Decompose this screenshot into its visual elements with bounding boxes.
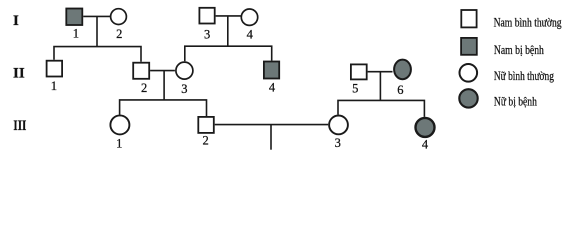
wire marriage II-5 to II-6 [368, 71, 393, 73]
legend symbol affected female [459, 89, 477, 107]
svg-text:Nam bình thường: Nam bình thường [494, 15, 562, 30]
wire marriage I-3 to I-4 [216, 15, 241, 17]
svg-text:3: 3 [204, 27, 210, 41]
individual I-2 normal female [111, 9, 127, 25]
individual III-3 normal female [329, 116, 348, 135]
svg-text:2: 2 [141, 81, 147, 95]
svg-text:4: 4 [269, 80, 276, 94]
wire sibling line of III-3 and III-4 [338, 100, 424, 117]
individual II-3 normal female [176, 62, 193, 79]
svg-text:2: 2 [202, 134, 208, 148]
svg-text:2: 2 [116, 27, 122, 41]
individual II-1 normal male [47, 61, 63, 77]
individual III-2 normal male [198, 117, 214, 133]
wire drop from couple II-5/II-6 [379, 72, 381, 101]
svg-text:III: III [13, 118, 26, 134]
svg-text:6: 6 [397, 83, 403, 97]
individual II-2 normal male [133, 63, 149, 79]
svg-text:I: I [13, 13, 19, 29]
individual III-4 affected female [416, 118, 435, 137]
wire drop from couple I-1/I-2 [96, 16, 98, 46]
svg-text:4: 4 [422, 138, 429, 152]
wire marriage III-2 to III-3 [215, 124, 329, 126]
wire drop from couple I-3/I-4 [227, 16, 229, 46]
legend symbol normal female [460, 64, 478, 82]
svg-text:3: 3 [181, 82, 187, 96]
svg-text:II: II [13, 66, 25, 82]
wire sibling line of III-1 and III-2 [120, 100, 207, 116]
individual II-6 affected female [394, 60, 411, 80]
legend symbol normal male [461, 10, 476, 27]
svg-text:3: 3 [335, 136, 341, 150]
legend symbol affected male [461, 38, 477, 55]
svg-text:Nữ bình thường: Nữ bình thường [494, 68, 554, 83]
svg-text:1: 1 [116, 137, 122, 151]
wire sibling line of II-3 and II-4 [185, 46, 272, 61]
wire marriage I-1 to I-2 [83, 15, 110, 17]
wire drop from couple II-2/II-3 [163, 71, 165, 100]
svg-text:4: 4 [247, 27, 254, 41]
svg-text:1: 1 [73, 26, 79, 40]
individual I-4 normal female [241, 9, 257, 25]
wire marriage II-2 to II-3 [150, 70, 175, 72]
svg-text:Nữ bị bệnh: Nữ bị bệnh [494, 94, 537, 109]
svg-text:5: 5 [352, 81, 358, 95]
wire offspring dangle from couple III-2/III-3 [270, 125, 272, 150]
individual III-1 normal female [110, 115, 129, 134]
wire sibling line of II-1 and II-2 [54, 47, 141, 62]
individual II-5 normal male [351, 64, 367, 79]
individual I-3 normal male [199, 8, 214, 24]
individual I-1 affected male [66, 9, 82, 26]
individual II-4 affected male [264, 62, 279, 79]
svg-text:1: 1 [51, 79, 57, 93]
svg-text:Nam bị bệnh: Nam bị bệnh [494, 42, 544, 57]
